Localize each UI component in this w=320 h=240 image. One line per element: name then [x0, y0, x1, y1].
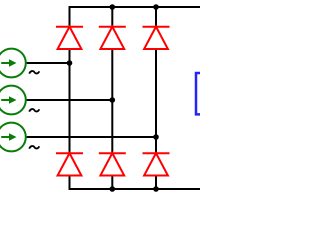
wire phase 1	[26, 62, 70, 64]
junction dot bottom rail col2	[110, 186, 116, 192]
junction dot phase3/col3	[153, 134, 159, 140]
wire column 1 mid	[69, 49, 71, 153]
junction dot top rail col3	[153, 4, 159, 10]
diode D5 (top, column 3)	[143, 27, 170, 49]
diode D4 (bottom, column 1)	[56, 153, 83, 175]
diode D2 (bottom, column 3)	[143, 153, 170, 175]
wire column 3 bottom	[155, 176, 157, 190]
tilde for V3	[29, 146, 39, 149]
AC source V1 (phase 1)	[0, 49, 26, 78]
diode D3 (top, column 2)	[99, 27, 126, 49]
load R (blue box, cut at right edge)	[196, 73, 200, 114]
wire column 2 top	[111, 7, 113, 27]
wire column 3 mid	[155, 49, 157, 153]
wire phase 3	[26, 136, 156, 138]
wire phase 2	[26, 99, 113, 101]
tilde for V1	[29, 71, 39, 74]
wire bottom rail (negative DC bus)	[70, 176, 201, 190]
wire column 3 top	[155, 7, 157, 27]
junction dot phase1/col1	[67, 60, 73, 66]
wire top rail (positive DC bus)	[70, 7, 201, 27]
AC source V2 (phase 2)	[0, 86, 26, 115]
junction dot bottom rail col3	[153, 186, 159, 192]
diode D6 (bottom, column 2)	[99, 153, 126, 175]
wire column 2 mid	[111, 49, 113, 153]
junction dot top rail col2	[110, 4, 116, 10]
AC source V3 (phase 3)	[0, 123, 26, 152]
diode D1 (top, column 1)	[56, 27, 83, 49]
tilde for V2	[29, 109, 39, 112]
wire column 2 bottom	[111, 176, 113, 190]
junction dot phase2/col2	[110, 97, 116, 103]
